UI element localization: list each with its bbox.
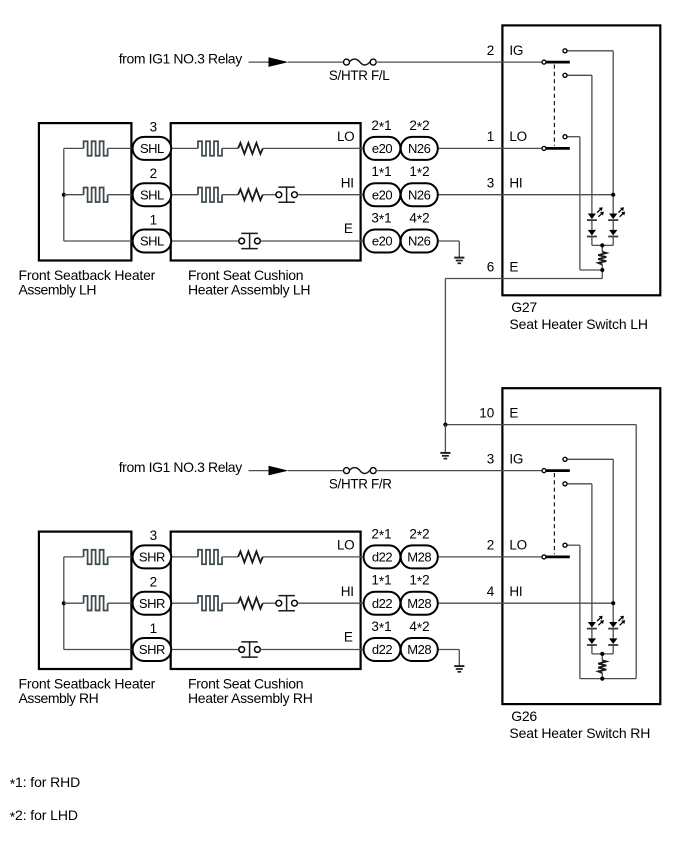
svg-text:10: 10 [479, 405, 494, 420]
svg-text:2: 2 [150, 575, 158, 590]
svg-text:HI: HI [341, 584, 354, 599]
svg-text:Assembly LH: Assembly LH [19, 281, 97, 297]
svg-text:N26: N26 [408, 187, 431, 202]
svg-text:LO: LO [337, 538, 354, 553]
svg-text:d22: d22 [372, 596, 393, 611]
svg-text:N26: N26 [408, 234, 431, 249]
svg-text:from IG1 NO.3 Relay: from IG1 NO.3 Relay [119, 51, 243, 67]
svg-text:e20: e20 [372, 141, 393, 156]
svg-text:4*2: 4*2 [409, 619, 429, 635]
svg-text:G26: G26 [511, 708, 537, 724]
svg-text:*1: for RHD: *1: for RHD [10, 774, 80, 791]
svg-text:2*2: 2*2 [409, 118, 429, 134]
svg-text:2: 2 [487, 538, 495, 553]
svg-text:e20: e20 [372, 187, 393, 202]
svg-text:HI: HI [341, 176, 354, 191]
svg-text:S/HTR F/L: S/HTR F/L [329, 68, 390, 83]
svg-text:3: 3 [487, 176, 495, 191]
svg-text:M28: M28 [407, 550, 431, 565]
svg-text:SHL: SHL [140, 187, 164, 202]
svg-text:E: E [509, 259, 518, 274]
svg-text:1*1: 1*1 [371, 164, 391, 180]
svg-text:SHR: SHR [139, 596, 165, 611]
svg-text:Seat Heater Switch LH: Seat Heater Switch LH [509, 316, 647, 332]
svg-text:2: 2 [487, 43, 495, 58]
svg-text:3: 3 [487, 451, 495, 466]
svg-text:G27: G27 [511, 299, 537, 315]
svg-text:1: 1 [150, 621, 158, 636]
svg-text:M28: M28 [407, 642, 431, 657]
svg-text:E: E [344, 221, 353, 236]
svg-text:Seat Heater Switch RH: Seat Heater Switch RH [509, 725, 650, 741]
svg-text:d22: d22 [372, 642, 393, 657]
svg-text:4*2: 4*2 [409, 211, 429, 227]
svg-text:Heater Assembly LH: Heater Assembly LH [188, 281, 310, 297]
svg-text:e20: e20 [372, 234, 393, 249]
svg-text:1: 1 [487, 129, 495, 144]
svg-text:2*1: 2*1 [371, 526, 391, 542]
svg-text:IG: IG [509, 451, 523, 466]
svg-text:2*2: 2*2 [409, 526, 429, 542]
svg-text:E: E [509, 405, 518, 420]
svg-text:d22: d22 [372, 550, 393, 565]
svg-text:3: 3 [150, 528, 158, 543]
svg-text:3*1: 3*1 [371, 619, 391, 635]
svg-text:IG: IG [509, 43, 523, 58]
svg-text:LO: LO [509, 538, 526, 553]
svg-text:N26: N26 [408, 141, 431, 156]
svg-text:HI: HI [509, 584, 522, 599]
svg-text:SHR: SHR [139, 642, 165, 657]
svg-text:6: 6 [487, 259, 495, 274]
svg-text:SHR: SHR [139, 550, 165, 565]
svg-text:SHL: SHL [140, 234, 164, 249]
svg-text:LO: LO [509, 129, 526, 144]
svg-text:LO: LO [337, 129, 354, 144]
svg-text:SHL: SHL [140, 141, 164, 156]
svg-text:Assembly RH: Assembly RH [19, 690, 99, 706]
svg-text:1*1: 1*1 [371, 573, 391, 589]
svg-text:1*2: 1*2 [409, 164, 429, 180]
svg-text:2: 2 [150, 166, 158, 181]
svg-text:S/HTR F/R: S/HTR F/R [329, 476, 392, 491]
svg-text:E: E [344, 630, 353, 645]
svg-text:2*1: 2*1 [371, 118, 391, 134]
svg-text:HI: HI [509, 176, 522, 191]
svg-text:from IG1 NO.3 Relay: from IG1 NO.3 Relay [119, 459, 243, 475]
svg-text:4: 4 [487, 584, 495, 599]
svg-text:3*1: 3*1 [371, 211, 391, 227]
svg-text:Heater Assembly RH: Heater Assembly RH [188, 690, 313, 706]
svg-text:1*2: 1*2 [409, 573, 429, 589]
svg-text:1: 1 [150, 212, 158, 227]
svg-text:3: 3 [150, 120, 158, 135]
svg-text:M28: M28 [407, 596, 431, 611]
svg-text:*2: for LHD: *2: for LHD [10, 807, 78, 824]
